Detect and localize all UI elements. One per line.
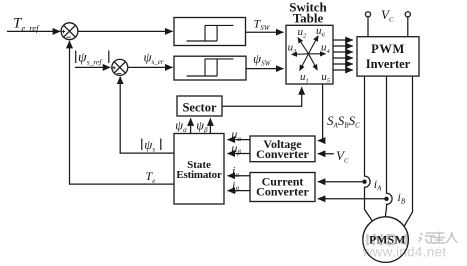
svg-text:PMSM: PMSM: [369, 235, 406, 247]
svg-text:ψβ: ψβ: [196, 119, 208, 135]
svg-text:Sector: Sector: [182, 101, 216, 115]
wire terminal right to inverter: [407, 17, 409, 37]
svg-text:Converter: Converter: [256, 185, 309, 199]
PWM inverter box: [357, 37, 419, 76]
svg-text:iA: iA: [374, 177, 382, 193]
svg-text:Te: Te: [146, 169, 156, 185]
phase wire B with current sensor loop: [385, 76, 392, 217]
DC supply terminal left: [365, 12, 370, 17]
wire u_alpha voltage conv to estimator: [228, 139, 250, 141]
svg-text:TSW: TSW: [254, 17, 271, 33]
wire junction2 to hysteresis2: [128, 66, 173, 68]
svg-text:www.ind4.net: www.ind4.net: [362, 245, 447, 260]
svg-text:ψs: ψs: [144, 137, 155, 154]
wire u_beta voltage conv to estimator: [228, 153, 250, 155]
DC supply terminal right: [405, 12, 410, 17]
voltage converter box: [250, 136, 315, 162]
svg-text:Te_ref: Te_ref: [13, 16, 40, 34]
svg-text:uβ: uβ: [231, 141, 241, 157]
svg-text:PWM: PWM: [371, 42, 405, 56]
svg-text:iB: iB: [398, 190, 406, 206]
svg-text:Converter: Converter: [256, 147, 309, 161]
motor PMSM: [363, 217, 409, 263]
wire junction1 to hysteresis1: [78, 30, 173, 32]
node i_B tap dot: [384, 197, 388, 201]
wire i_B to current converter: [318, 198, 387, 200]
svg-text:u1: u1: [300, 71, 309, 85]
hysteresis comparator block 1 (torque): [174, 18, 246, 46]
svg-text:ψs_ref: ψs_ref: [78, 51, 102, 67]
svg-text:Table: Table: [293, 11, 324, 26]
label |psi_s_ref|: [76, 51, 109, 67]
node i_A tap dot: [362, 180, 366, 184]
wire flux ref input: [75, 66, 110, 68]
wire psi_alpha to sector: [190, 118, 192, 133]
svg-text:iβ: iβ: [232, 178, 239, 194]
state estimator box: [174, 134, 224, 205]
current converter box: [250, 173, 315, 202]
wire V_C to voltage converter: [318, 153, 334, 155]
wire i_alpha current conv to estimator: [228, 175, 250, 177]
phase wire A with current sensor loop: [365, 76, 373, 221]
svg-text:u3: u3: [288, 41, 298, 55]
wire T_e feedback: [70, 41, 175, 184]
summing junction 1 (torque): [61, 23, 78, 40]
svg-text:u2: u2: [298, 26, 308, 40]
wire i_A to current converter: [318, 181, 365, 183]
wire terminal left to inverter: [367, 17, 369, 37]
hysteresis comparator block 2 (flux): [174, 56, 246, 80]
wire i_beta current conv to estimator: [228, 190, 250, 192]
svg-text:u5: u5: [321, 71, 331, 85]
voltage vector star: [292, 36, 326, 71]
svg-text:u4: u4: [321, 41, 331, 55]
wire S_ABC to voltage converter: [318, 84, 323, 141]
wire sector to switch table: [222, 87, 302, 106]
wire flux magnitude feedback: [120, 77, 174, 154]
svg-text:iα: iα: [232, 163, 239, 179]
svg-text:Inverter: Inverter: [366, 57, 411, 71]
wire psi_beta to sector: [209, 118, 211, 133]
sector box: [177, 96, 222, 116]
summing junction 2 (flux): [112, 59, 128, 75]
watermark chinese chars: [419, 232, 458, 244]
svg-text:ψs_er: ψs_er: [144, 50, 164, 67]
wire psi_SW: [246, 68, 283, 70]
switch table box: [286, 25, 333, 84]
svg-text:VC: VC: [336, 148, 349, 165]
svg-text:Estimator: Estimator: [176, 169, 222, 181]
svg-text:SASBSC: SASBSC: [327, 113, 360, 130]
svg-text:ψα: ψα: [175, 119, 187, 135]
svg-text:ψSW: ψSW: [253, 51, 272, 68]
wires switch table to PWM inverter (6): [333, 40, 353, 70]
wire torque ref input: [7, 30, 60, 32]
phase wire C: [404, 76, 413, 227]
label |psi_s|: [142, 137, 161, 154]
svg-text:u6: u6: [316, 25, 326, 39]
svg-text:VC: VC: [381, 7, 394, 24]
wire T_SW: [246, 31, 284, 33]
